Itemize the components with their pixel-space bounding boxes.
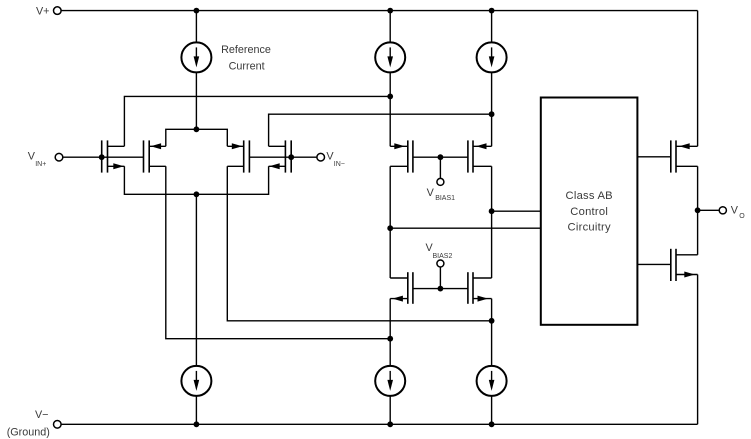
svg-text:Class AB: Class AB	[566, 190, 613, 202]
svg-text:V−: V−	[35, 409, 49, 421]
wire VBIAS1 stub	[439, 157, 441, 178]
wire box to Q9 gate	[637, 156, 670, 158]
wire Q4 drain to I3 node	[269, 114, 492, 146]
wire bottom rail V-	[61, 423, 698, 425]
terminal VIN+	[55, 153, 63, 161]
node top rail junction 1	[194, 8, 200, 14]
transistor Q8	[468, 272, 492, 304]
wire Q7-Q8 gate link	[413, 288, 468, 290]
wire output node to VO terminal	[698, 209, 719, 211]
wire Q5 source down to Q7 drain	[389, 166, 391, 278]
wire I6 to bottom rail	[491, 396, 493, 424]
transistor Q5	[390, 140, 413, 172]
node bottom rail junction 1	[194, 421, 200, 427]
transistor Q4	[269, 140, 292, 172]
wire VBIAS2 stub	[439, 267, 441, 289]
wire tail down to I4	[195, 194, 197, 366]
wire Q6 source down to Q8 drain	[491, 166, 493, 278]
svg-text:Circuitry: Circuitry	[568, 221, 611, 233]
terminal VBIAS1	[437, 178, 444, 185]
svg-text:Control: Control	[570, 206, 608, 218]
node top rail junction 2	[387, 8, 393, 14]
transistor Q2	[144, 140, 166, 172]
node bottom rail junction 2	[387, 421, 393, 427]
wire input pair source rail	[124, 166, 268, 194]
wire Q3 source to lower line	[227, 166, 491, 320]
node VBIAS2 gate	[438, 286, 444, 292]
node class AB tap right	[489, 208, 495, 214]
node top rail junction 3	[489, 8, 495, 14]
block class AB control circuitry	[541, 98, 638, 325]
node class AB tap left	[387, 225, 393, 231]
current source I6	[477, 366, 507, 396]
current source I4	[181, 366, 211, 396]
svg-text:(Ground): (Ground)	[7, 426, 50, 438]
terminal VO	[719, 207, 726, 214]
wire box to Q10 gate	[637, 263, 670, 265]
current source I5	[375, 366, 405, 396]
node I3 / folded line junction	[489, 111, 495, 117]
node tail junction	[194, 191, 200, 197]
wire input pair drain rail	[166, 129, 228, 146]
svg-text:BIAS2: BIAS2	[433, 253, 453, 260]
terminal V-	[54, 421, 62, 429]
wire I2 top lead	[389, 11, 391, 43]
wire Q2 source to lower line	[166, 166, 390, 338]
wire Q1 drain to I2 node	[124, 96, 390, 146]
svg-text:V: V	[731, 205, 739, 217]
svg-text:Reference: Reference	[221, 44, 271, 56]
wire tap to class AB box (upper)	[492, 210, 541, 212]
wire I2 down to Q5 drain	[389, 73, 391, 147]
terminal VBIAS2	[437, 260, 444, 267]
node VBIAS1 gate	[438, 154, 444, 160]
node bottom rail junction 3	[489, 421, 495, 427]
current source I3	[477, 42, 507, 72]
wire VIN+ to Q1/Q2 gates	[63, 156, 144, 158]
current source I1 (reference)	[181, 42, 211, 72]
wire I3 down to Q6 drain	[491, 73, 493, 147]
transistor Q1	[102, 140, 125, 172]
wire I5 to bottom rail	[389, 396, 391, 424]
wire I1 top lead	[195, 11, 197, 43]
node I2 / folded line junction	[387, 94, 393, 100]
node Q4 gate	[288, 154, 294, 160]
svg-text:BIAS1: BIAS1	[435, 195, 455, 202]
wire Q9 drain to top rail	[697, 11, 699, 147]
wire Q10 drain to output node	[697, 210, 699, 255]
terminal V+	[54, 7, 62, 15]
transistor Q6	[468, 140, 492, 172]
svg-text:Current: Current	[229, 60, 265, 72]
wire Q9 source to output node	[697, 166, 699, 210]
wire Q7 source to I5	[389, 299, 391, 367]
node lower line / I5 column	[387, 336, 393, 342]
wire I1 to input pair drain rail	[195, 73, 197, 130]
svg-text:O: O	[739, 213, 745, 220]
wire Q5-Q6 gate link	[413, 156, 468, 158]
transistor Q10	[671, 249, 698, 281]
transistor Q7	[390, 272, 413, 304]
terminal VIN-	[317, 153, 325, 161]
transistor Q9	[671, 140, 698, 172]
wire I4 to bottom rail	[195, 396, 197, 424]
wire Q10 source to bottom rail	[697, 275, 699, 425]
wire Q8 source to I6	[491, 299, 493, 367]
svg-text:IN−: IN−	[334, 161, 345, 168]
svg-text:V+: V+	[36, 5, 50, 17]
wire tap to class AB box (lower)	[390, 227, 541, 229]
wire I3 top lead	[491, 11, 493, 43]
current source I2	[375, 42, 405, 72]
node input pair drain rail / I1	[194, 126, 200, 132]
node lower line / I6 column	[489, 318, 495, 324]
node output	[695, 207, 701, 213]
svg-text:V: V	[427, 187, 435, 199]
wire top rail V+	[61, 10, 698, 12]
transistor Q3	[227, 140, 249, 172]
wire VIN- to Q4/Q3 gates	[249, 156, 317, 158]
node Q1 gate	[99, 154, 105, 160]
svg-text:IN+: IN+	[35, 161, 46, 168]
